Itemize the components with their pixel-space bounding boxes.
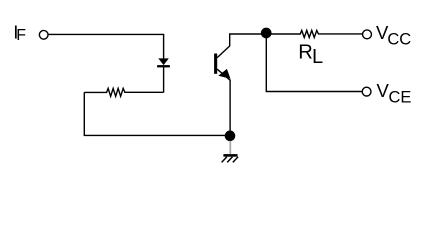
svg-text:CC: CC bbox=[387, 30, 411, 48]
svg-text:CE: CE bbox=[389, 88, 412, 106]
svg-text:F: F bbox=[16, 27, 26, 44]
svg-text:R: R bbox=[298, 42, 313, 64]
svg-text:L: L bbox=[312, 46, 323, 68]
